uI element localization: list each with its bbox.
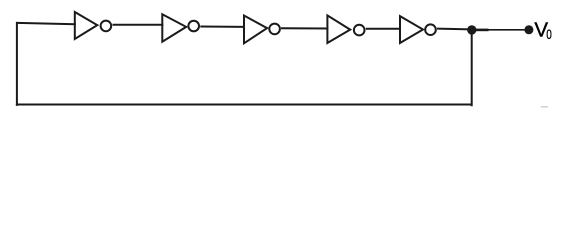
stray scan smudge [541, 106, 548, 108]
wire U1 to U2 [113, 24, 164, 26]
wire U5 output to junction [437, 28, 471, 31]
wire feedback left vertical [16, 22, 18, 106]
inverter U4 [327, 15, 364, 43]
inverter U5 [400, 16, 436, 43]
wire U3 to U4 [281, 27, 328, 29]
inverter U2 [162, 14, 199, 41]
wire junction to Vo thick part [475, 29, 489, 32]
junction node dot [467, 25, 476, 34]
inverter U3 [244, 16, 280, 44]
inverter U1 [75, 12, 111, 39]
wire U4 to U5 [366, 28, 401, 30]
wire junction to Vo thin part [489, 29, 530, 31]
svg-text:0: 0 [546, 26, 552, 42]
wire feedback right vertical [471, 29, 473, 106]
wire feedback left top segment [17, 23, 76, 24]
wire U2 to U3 [200, 26, 245, 28]
wire feedback bottom [16, 103, 472, 105]
output terminal dot [524, 25, 533, 34]
